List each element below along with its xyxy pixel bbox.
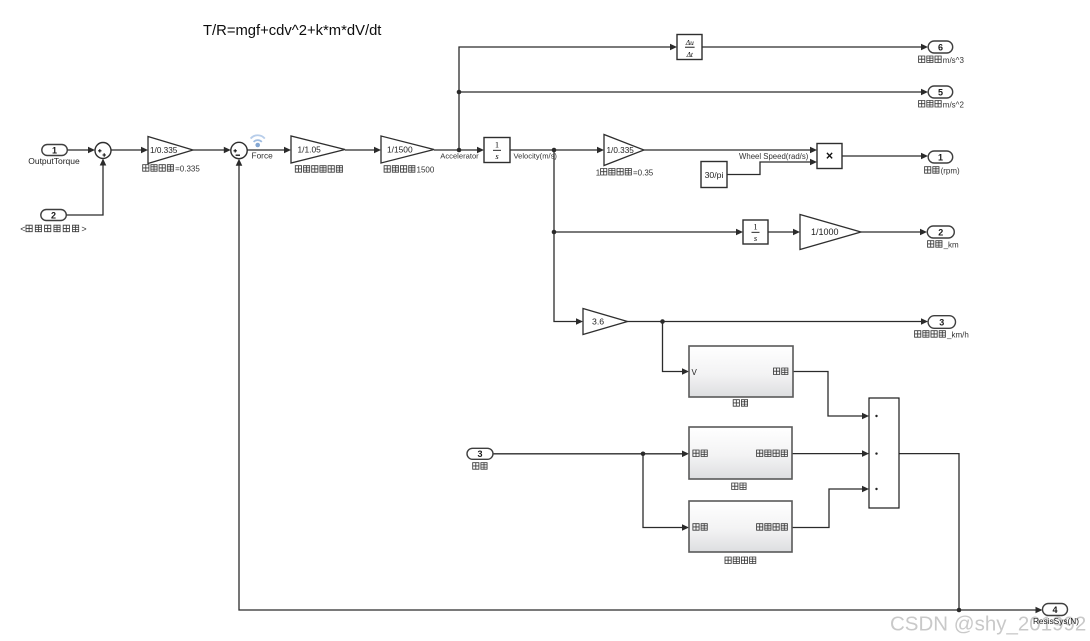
- svg-text:1: 1: [495, 140, 499, 150]
- svg-text:6: 6: [938, 42, 943, 52]
- svg-text:1/0.335: 1/0.335: [150, 146, 178, 155]
- svg-text:4: 4: [1052, 605, 1057, 615]
- svg-text:Δt: Δt: [686, 50, 694, 59]
- svg-text:1/0.335: 1/0.335: [607, 146, 635, 155]
- svg-text:ResisSys(N): ResisSys(N): [1033, 616, 1079, 626]
- svg-text:1: 1: [596, 168, 601, 177]
- svg-text:1: 1: [753, 222, 757, 232]
- svg-text:(rpm): (rpm): [941, 167, 960, 176]
- svg-text:V: V: [692, 368, 698, 377]
- svg-text:3: 3: [477, 449, 482, 459]
- svg-text:1: 1: [938, 152, 943, 162]
- svg-text:=0.335: =0.335: [175, 165, 200, 174]
- svg-text:m/s^2: m/s^2: [943, 100, 965, 109]
- svg-text:_km: _km: [943, 241, 959, 250]
- svg-text:OutputTorque: OutputTorque: [28, 156, 80, 166]
- svg-text:=0.35: =0.35: [633, 168, 654, 177]
- svg-text:Wheel Speed(rad/s): Wheel Speed(rad/s): [739, 152, 809, 161]
- svg-text:1500: 1500: [417, 166, 435, 175]
- svg-text:m/s^3: m/s^3: [943, 56, 965, 65]
- svg-text:5: 5: [938, 87, 943, 97]
- svg-text:2: 2: [51, 210, 56, 220]
- svg-text:3: 3: [939, 317, 944, 327]
- svg-text:Velocity(m/s): Velocity(m/s): [514, 152, 558, 161]
- svg-text:Accelerator: Accelerator: [440, 152, 479, 161]
- svg-text:30/pi: 30/pi: [705, 170, 724, 180]
- svg-text:1/1.05: 1/1.05: [298, 145, 322, 155]
- svg-text:1/1000: 1/1000: [811, 227, 839, 237]
- svg-text:>: >: [81, 224, 86, 234]
- svg-text:1: 1: [52, 145, 57, 155]
- svg-text:T/R=mgf+cdv^2+k*m*dV/dt: T/R=mgf+cdv^2+k*m*dV/dt: [203, 23, 381, 39]
- svg-text:1/1500: 1/1500: [387, 145, 413, 155]
- svg-text:_km/h: _km/h: [946, 331, 969, 340]
- svg-text:3.6: 3.6: [592, 317, 604, 327]
- svg-text:×: ×: [826, 149, 833, 163]
- svg-text:<: <: [20, 224, 25, 234]
- svg-text:Force: Force: [252, 151, 274, 161]
- svg-text:2: 2: [938, 227, 943, 237]
- svg-text:Δu: Δu: [685, 38, 694, 47]
